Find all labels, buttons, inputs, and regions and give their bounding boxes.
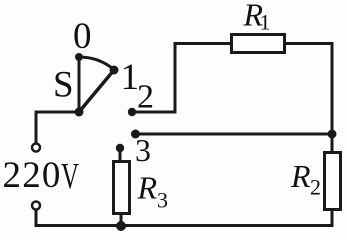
- svg-text:R: R: [137, 170, 158, 206]
- wire contact3 to R2 junction: [136, 133, 333, 136]
- svg-text:3: 3: [135, 132, 151, 168]
- resistor R2 body: [325, 153, 341, 210]
- svg-text:2: 2: [310, 175, 321, 200]
- wire stub junction to R2 top: [331, 134, 334, 153]
- wire switch pivot to contact 0: [78, 57, 81, 112]
- junction node R3 bottom: [116, 221, 126, 231]
- switch travel arc: [79, 57, 115, 70]
- svg-text:2: 2: [137, 79, 154, 116]
- wire R3 top stub: [119, 148, 122, 162]
- wire pivot to left rail: [36, 112, 79, 143]
- node R3 top terminal: [116, 144, 124, 152]
- switch pivot node: [75, 108, 84, 117]
- svg-text:3: 3: [157, 188, 168, 213]
- node contact 0: [75, 53, 83, 61]
- terminal source bottom: [32, 202, 40, 210]
- svg-text:1: 1: [260, 10, 271, 35]
- terminal source top: [32, 144, 40, 152]
- wire contact2 to R1 branch riser: [132, 44, 175, 113]
- svg-text:R: R: [290, 158, 311, 194]
- svg-text:0: 0: [73, 16, 92, 57]
- resistor R3 body: [114, 162, 130, 214]
- svg-text:220: 220: [3, 155, 62, 196]
- resistor R1 body: [232, 35, 285, 53]
- wire R2 bottom stub: [331, 209, 334, 227]
- wire right vertical: [331, 44, 334, 137]
- wire top left segment: [174, 42, 233, 45]
- wire below bottom terminal: [35, 210, 38, 226]
- node contact 3: [131, 130, 140, 139]
- junction node R2 top: [328, 130, 337, 139]
- wire R3 bottom stub: [120, 213, 123, 226]
- svg-text:S: S: [53, 65, 74, 106]
- svg-text:V: V: [61, 157, 79, 198]
- node contact 1: [110, 66, 119, 75]
- wire top right segment: [284, 42, 334, 45]
- switch S arm: [79, 70, 114, 112]
- wire bottom rail: [36, 224, 332, 226]
- node contact 2: [128, 108, 136, 116]
